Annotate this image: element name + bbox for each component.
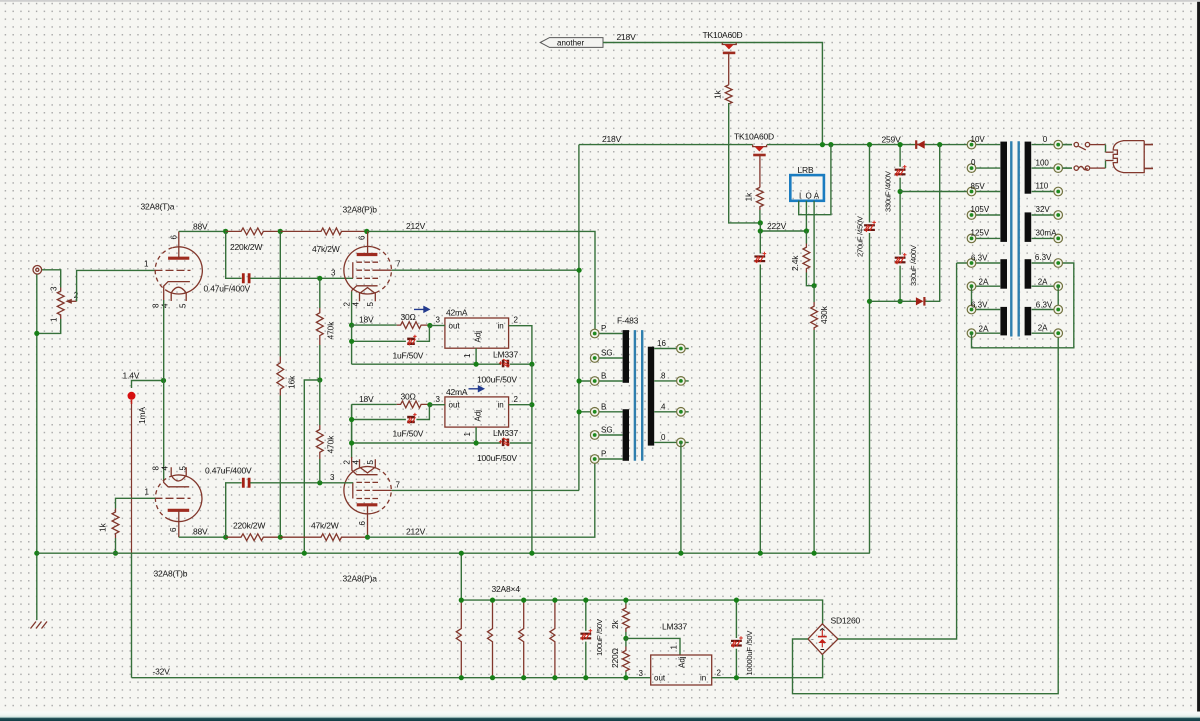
svg-text:6: 6 <box>358 521 367 526</box>
svg-text:2A: 2A <box>1038 277 1048 286</box>
node heater rail bus junction <box>459 551 464 556</box>
svg-text:105V: 105V <box>971 205 990 214</box>
svg-text:42mA: 42mA <box>446 308 468 318</box>
F-483 tap 8 <box>654 371 689 385</box>
svg-text:100: 100 <box>1036 158 1050 167</box>
ground bus wire <box>37 552 870 554</box>
window bottom bar <box>0 712 1200 721</box>
wire lower diode line <box>870 145 940 302</box>
blue current arrow (2) <box>469 386 484 391</box>
T2 terminal 2A left upper <box>967 277 1000 290</box>
svg-text:~: ~ <box>811 638 814 644</box>
T2 primary bar <box>1000 142 1007 242</box>
svg-text:8: 8 <box>152 466 161 471</box>
T2 terminal 2A right lower <box>1032 323 1063 337</box>
svg-text:0: 0 <box>661 433 666 442</box>
wire 1uF branch (1) <box>352 325 430 364</box>
node in-rail junction (1) <box>529 362 534 367</box>
svg-text:6: 6 <box>170 235 179 240</box>
svg-text:5: 5 <box>366 460 375 465</box>
U6 grid dashes <box>155 497 191 499</box>
node 222V bus junction <box>758 551 763 556</box>
U8 LM337 box (heater) <box>651 655 712 685</box>
wire Adj rail (2) <box>352 364 532 443</box>
T2 terminal 6.3V left lower <box>967 300 1000 314</box>
potentiometer wiper arrow <box>65 299 72 304</box>
T2 terminal 32V <box>1032 205 1063 219</box>
svg-text:220k/2W: 220k/2W <box>230 242 262 252</box>
F-483 terminal B2 <box>577 402 623 416</box>
svg-text:100uF /50V: 100uF /50V <box>595 618 604 656</box>
resistor 47k/2W (top) <box>280 228 367 235</box>
U2 plate <box>357 253 378 256</box>
svg-text:218V: 218V <box>602 134 622 144</box>
capacitor 222V filter <box>754 252 766 263</box>
U2 cathode <box>352 286 378 292</box>
svg-text:100uF/50V: 100uF/50V <box>477 453 517 463</box>
U7 plate <box>357 503 378 506</box>
svg-text:88V: 88V <box>193 222 208 232</box>
wire 1k(1) down across 218V line to 222V node <box>729 103 761 223</box>
wire LRB A pin down <box>813 201 815 286</box>
svg-text:Adj: Adj <box>474 410 483 422</box>
F-483 terminal P <box>590 324 622 338</box>
svg-text:out: out <box>449 322 461 331</box>
node 18V-rail junction (2) <box>349 440 354 445</box>
svg-text:in: in <box>700 674 706 683</box>
capacitor 10000uF/50V <box>735 600 737 678</box>
U7 cathode <box>352 457 378 475</box>
T2 terminal 10V <box>967 135 1000 149</box>
svg-text:330uF /400V: 330uF /400V <box>909 244 918 286</box>
capacitor 1uF/50V (2) <box>407 413 416 424</box>
svg-text:3: 3 <box>330 473 335 482</box>
capacitor 330uF/400V (2) <box>895 253 907 264</box>
F-483 core lines <box>635 330 642 461</box>
regulator LRB box <box>790 175 824 201</box>
wire jack sleeve down to ground <box>36 275 38 621</box>
node bus junctions <box>302 551 307 556</box>
wire bridge right vertex AC <box>838 263 957 639</box>
svg-text:2: 2 <box>343 460 352 465</box>
node 220/out junction <box>623 675 628 680</box>
wire in pin (2) <box>509 404 532 406</box>
svg-text:0.47uF/400V: 0.47uF/400V <box>204 284 251 294</box>
svg-text:220k/2W: 220k/2W <box>233 521 265 531</box>
svg-text:TK10A60D: TK10A60D <box>734 132 774 142</box>
T2 terminal 6.3V right lower <box>1032 300 1063 314</box>
svg-text:32A8(T)a: 32A8(T)a <box>141 202 175 212</box>
T2 terminal 2A right upper <box>1032 277 1063 290</box>
svg-text:470k: 470k <box>326 321 336 340</box>
svg-text:3: 3 <box>50 286 59 291</box>
svg-text:F-483: F-483 <box>617 316 639 326</box>
capacitor 100uF/50V heater <box>585 600 587 678</box>
capacitor 0.47uF/400V (bottom) <box>243 478 249 488</box>
node 1uF tap (2) <box>349 417 354 422</box>
node grid/470k junction (top) <box>317 276 322 281</box>
capacitor 100uF/50V (2) <box>499 438 510 446</box>
wire another net to B line corner <box>603 43 822 145</box>
svg-text:2A: 2A <box>979 324 989 333</box>
svg-text:2A: 2A <box>979 277 989 286</box>
wire 222V node segment <box>760 223 806 231</box>
svg-text:32V: 32V <box>1036 205 1051 214</box>
U1a plate <box>168 257 189 260</box>
svg-text:2: 2 <box>717 669 722 678</box>
wire 218V line <box>579 145 967 491</box>
blue current arrow (1) <box>414 307 429 312</box>
node grid/470k junction (bottom) <box>317 480 322 485</box>
resistor 16k <box>279 231 281 356</box>
svg-text:32A8×4: 32A8×4 <box>492 584 521 594</box>
wire U7 screen pin7 to B line <box>392 489 579 491</box>
wire cap to (P)a grid <box>250 482 353 484</box>
svg-text:3: 3 <box>331 269 336 278</box>
-32V rail wire <box>132 677 651 679</box>
wire (T)a plate to top rail <box>179 230 226 232</box>
svg-text:-32V: -32V <box>153 667 171 677</box>
node 212V plate junction (bottom) <box>365 535 370 540</box>
node 430k bus junction <box>812 551 817 556</box>
svg-text:32A8(T)b: 32A8(T)b <box>154 569 188 579</box>
node 220k/47k junction (bottom) <box>278 535 283 540</box>
T2 terminal 0 (primary) <box>967 158 1000 173</box>
svg-text:1: 1 <box>670 645 679 650</box>
svg-text:another: another <box>557 39 584 48</box>
svg-text:1: 1 <box>144 260 149 269</box>
svg-text:1uF/50V: 1uF/50V <box>393 351 424 361</box>
wire U6 grid to 1k <box>116 498 156 508</box>
svg-text:100uF/50V: 100uF/50V <box>477 375 517 385</box>
F-483 tap 16 <box>654 339 689 353</box>
capacitor 0.47uF/400V (top) <box>243 273 249 283</box>
wire 1uF branch (2) <box>352 404 430 443</box>
svg-text:B: B <box>601 372 606 381</box>
window top edge <box>0 0 1200 2</box>
potentiometer VR1 body <box>57 288 64 320</box>
T2 terminal 110 <box>1032 182 1063 196</box>
svg-text:4: 4 <box>352 460 361 465</box>
svg-text:47k/2W: 47k/2W <box>311 521 339 531</box>
resistor 430k <box>813 286 815 302</box>
heater H1 <box>456 600 461 678</box>
svg-text:18V: 18V <box>359 394 374 404</box>
svg-text:6.3V: 6.3V <box>1036 300 1053 309</box>
svg-text:18V: 18V <box>359 315 374 325</box>
U2 grid rows <box>356 261 378 263</box>
wire LRB O pin to 222V <box>805 201 807 231</box>
wire pot bottom to ground line <box>37 319 61 333</box>
wire bridge left vertex AC <box>793 333 1059 694</box>
AC plug P1 <box>1113 141 1144 173</box>
LED D1 <box>128 392 136 400</box>
T2 terminal 6.3V right upper <box>1032 253 1063 267</box>
resistor 47k/2W (bottom) <box>280 534 367 541</box>
svg-text:220Ω: 220Ω <box>610 648 620 668</box>
svg-text:3: 3 <box>436 316 441 325</box>
wire (T)b plate to bottom rail <box>179 536 226 538</box>
node 85V junction <box>898 189 903 194</box>
input jack J1 <box>33 266 42 275</box>
svg-text:212V: 212V <box>406 527 426 537</box>
node 0-bus junction <box>678 551 683 556</box>
node 2k/220 junction <box>623 636 628 641</box>
svg-text:330uF /400V: 330uF /400V <box>884 170 893 212</box>
window right border <box>1196 2 1198 712</box>
svg-text:2: 2 <box>514 395 519 404</box>
F-483 secondary bar <box>648 347 654 446</box>
svg-text:30Ω: 30Ω <box>401 312 416 322</box>
node in junction (2) <box>529 402 534 407</box>
svg-text:7: 7 <box>396 260 401 269</box>
svg-text:32A8(P)a: 32A8(P)a <box>343 574 378 584</box>
U6 heater <box>171 467 186 481</box>
wire out pin to 30ohm (2) <box>430 404 445 406</box>
pentode U7 32A8(P)a envelope <box>344 467 377 514</box>
wire in line down to bus <box>531 443 533 553</box>
svg-text:LM337: LM337 <box>493 428 518 438</box>
switch SW2 <box>1063 167 1073 169</box>
diode D3 (cathode right) <box>916 297 925 306</box>
svg-text:110: 110 <box>1036 182 1049 191</box>
svg-text:3: 3 <box>436 395 441 404</box>
svg-text:in: in <box>498 401 504 410</box>
svg-text:2A: 2A <box>1038 323 1048 332</box>
node cathode 1.4V junction <box>161 378 166 383</box>
svg-text:0: 0 <box>971 158 976 167</box>
wire Adj pin lead (2) <box>475 427 477 443</box>
ground <box>31 622 48 629</box>
svg-text:16: 16 <box>657 339 666 348</box>
node 330uF2 lower junction <box>898 299 903 304</box>
node 270uF lower junction <box>867 299 872 304</box>
node pot-ground junction <box>34 331 39 336</box>
wire series link right <box>1057 286 1059 309</box>
node 222V junction b <box>758 228 763 233</box>
U5 LM337 box (2) <box>445 397 509 427</box>
svg-text:SG: SG <box>601 426 613 435</box>
node Adj junction (1) <box>474 362 479 367</box>
node 18V junction 1 <box>349 323 354 328</box>
svg-text:222V: 222V <box>767 221 787 231</box>
P1 prongs <box>1144 145 1153 169</box>
svg-text:1mA: 1mA <box>137 407 147 424</box>
svg-text:1: 1 <box>145 488 150 497</box>
pentode U2 32A8(P)b envelope <box>344 246 377 294</box>
T2 heater bar left upper <box>1000 259 1007 289</box>
T2 heater bar right upper <box>1025 259 1032 289</box>
svg-text:A: A <box>814 192 820 201</box>
resistor 2.4k <box>805 231 807 244</box>
svg-text:3: 3 <box>639 669 644 678</box>
svg-text:2.4k: 2.4k <box>790 255 800 271</box>
F-483 tap 0 <box>654 433 689 447</box>
svg-text:P: P <box>601 450 606 459</box>
T2 terminal 6.3V left upper <box>957 253 1001 267</box>
wire pot wiper riser to (T)a grid <box>77 270 156 301</box>
T2 secondary bar upper <box>1025 142 1032 194</box>
svg-text:2: 2 <box>343 302 352 307</box>
svg-text:4: 4 <box>161 466 170 471</box>
capacitor 270uF/450V <box>869 145 871 554</box>
node 470k common junction <box>317 377 322 382</box>
node out junction 2 <box>427 402 432 407</box>
node 259V junction <box>867 142 872 147</box>
svg-text:8: 8 <box>152 303 161 308</box>
svg-text:30mA: 30mA <box>1036 229 1058 238</box>
node out junction 1 <box>427 323 432 328</box>
wire LED to -32V rail <box>131 404 133 553</box>
svg-text:out: out <box>654 674 666 683</box>
node 88V junction <box>223 229 228 234</box>
svg-text:8: 8 <box>661 371 666 380</box>
wire switch2 to plug <box>1090 167 1105 169</box>
F-483 terminal B <box>577 372 623 386</box>
net flag another <box>540 38 603 48</box>
svg-text:16k: 16k <box>287 375 297 389</box>
resistor 470k (top) <box>319 278 321 308</box>
wire Adj rail (1) <box>352 326 532 365</box>
T2 terminal 85V <box>967 182 1000 196</box>
svg-text:SD1260: SD1260 <box>831 616 861 626</box>
svg-text:1: 1 <box>50 317 59 322</box>
svg-text:TK10A60D: TK10A60D <box>703 30 743 40</box>
wire U2 screen pin7 to B line <box>392 269 579 271</box>
U1a grid dashes <box>155 269 191 271</box>
svg-text:SG: SG <box>601 349 613 358</box>
wire 88V node down to coupling cap <box>226 231 242 278</box>
resistor 1k (T)b grid <box>112 509 119 539</box>
svg-text:1k: 1k <box>98 522 108 532</box>
wire 212V rail (top) to OPT P <box>367 231 595 329</box>
resistor 1k (1) <box>725 85 732 104</box>
node 1uF tap (1) <box>349 339 354 344</box>
resistor 2k <box>625 600 627 604</box>
T2 terminal 0 (sec) <box>1032 135 1072 149</box>
svg-text:470k: 470k <box>326 435 336 454</box>
svg-text:Adj: Adj <box>678 656 687 668</box>
svg-text:10V: 10V <box>971 135 986 144</box>
wire 470k return to bus <box>304 380 320 553</box>
wire U4 cathode to 18V node 2 <box>351 404 353 458</box>
wire LRB I pin feed from 218V <box>799 145 831 215</box>
resistor 220ohm <box>625 638 627 646</box>
svg-text:P: P <box>601 324 606 333</box>
node 220k/47k junction (top) <box>278 229 283 234</box>
svg-text:7: 7 <box>396 481 401 490</box>
resistor 220k/2W (bottom) <box>226 534 281 541</box>
svg-text:2k: 2k <box>610 619 620 629</box>
wire out pin to 30ohm <box>430 325 445 327</box>
svg-text:2: 2 <box>514 316 519 325</box>
wire 0 tap to bus <box>680 442 682 553</box>
svg-text:4: 4 <box>661 402 666 411</box>
svg-text:42mA: 42mA <box>446 387 468 397</box>
resistor 30ohm (1) <box>352 324 397 326</box>
wire Adj pin lead (1) <box>475 348 477 364</box>
triode U1a 32A8(T)a envelope <box>169 247 203 294</box>
heater H2 <box>488 600 493 678</box>
svg-text:out: out <box>449 401 461 410</box>
wire series link left <box>971 286 973 309</box>
svg-text:125V: 125V <box>971 229 990 238</box>
heater H4 <box>550 600 555 678</box>
svg-text:0: 0 <box>1043 135 1048 144</box>
heater H3 <box>519 600 524 678</box>
T2 heater bar right lower <box>1025 307 1032 336</box>
U6 cathode <box>164 481 190 487</box>
F-483 primary bar upper <box>623 330 629 383</box>
svg-text:5: 5 <box>179 303 188 308</box>
node 212V plate junction (top) <box>364 229 369 234</box>
U2 heater <box>360 288 376 302</box>
F-483 terminal P2 <box>590 450 622 464</box>
svg-text:5: 5 <box>366 302 375 307</box>
svg-text:4: 4 <box>352 302 361 307</box>
svg-text:47k/2W: 47k/2W <box>312 244 340 254</box>
wire cap to (P)b grid <box>250 277 353 279</box>
U7 heater <box>360 459 376 473</box>
diode D2 (cathode left) <box>916 140 925 149</box>
svg-text:4: 4 <box>161 303 170 308</box>
svg-text:0.47uF/400V: 0.47uF/400V <box>205 466 252 476</box>
svg-text:32A8(P)b: 32A8(P)b <box>343 205 378 215</box>
wire LM337b Adj lead <box>626 638 680 655</box>
T2 terminal 30mA <box>1032 229 1063 243</box>
node diode right junction <box>937 142 942 147</box>
triode U6 32A8(T)b envelope <box>169 475 202 522</box>
svg-text:B: B <box>601 402 606 411</box>
svg-text:6.3V: 6.3V <box>971 253 988 262</box>
svg-text:10000uF /50V: 10000uF /50V <box>745 630 754 676</box>
node 222V O junction <box>804 228 809 233</box>
wire bottom series link <box>972 263 1074 348</box>
U1a cathode <box>164 282 190 301</box>
svg-text:I: I <box>799 192 801 201</box>
resistor 470k (bottom) <box>319 380 321 425</box>
svg-text:1: 1 <box>463 353 472 358</box>
node 222V junction a <box>758 220 763 225</box>
F-483 terminal SG2 <box>590 426 622 440</box>
svg-text:LM337: LM337 <box>493 350 518 360</box>
resistor 220k/2W (top) <box>226 228 281 235</box>
T2 core lines <box>1011 141 1018 336</box>
svg-text:85V: 85V <box>971 182 986 191</box>
svg-text:~: ~ <box>829 638 832 644</box>
capacitor 330uF/400V (1) <box>899 145 901 302</box>
svg-text:88V: 88V <box>193 527 208 537</box>
T2 heater bar left lower <box>1000 307 1007 336</box>
U7 grid rows <box>356 481 378 483</box>
wire switch1 to plug <box>1090 144 1105 146</box>
svg-text:in: in <box>498 322 504 331</box>
svg-text:1k: 1k <box>744 192 754 202</box>
wire 222V filter cap line to bus <box>759 231 761 553</box>
node A/2.4k junction <box>812 283 817 288</box>
U6 plate <box>168 509 190 512</box>
svg-text:212V: 212V <box>406 221 426 231</box>
svg-text:218V: 218V <box>617 32 637 42</box>
svg-text:1k: 1k <box>713 89 723 99</box>
F-483 primary bar lower <box>623 409 629 461</box>
svg-text:6.3V: 6.3V <box>971 300 988 309</box>
wire U8 in to bridge <box>712 655 823 678</box>
wire heater top rail <box>461 553 822 625</box>
U3 LM337 box (1) <box>445 318 509 348</box>
wire U2 cathode down to 18V node <box>351 292 353 326</box>
wire 1.4V LED tap <box>132 381 164 389</box>
